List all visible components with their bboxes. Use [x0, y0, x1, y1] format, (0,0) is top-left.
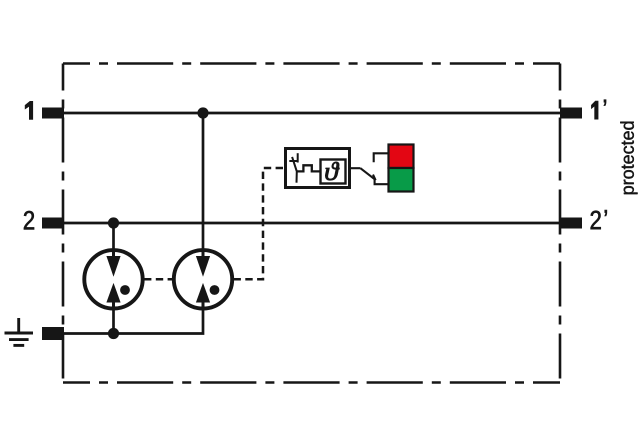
earth wire: [63, 308, 203, 334]
label protected: [620, 122, 637, 195]
thermal disconnect box: [286, 149, 350, 188]
disconnect fixed contact stub: [297, 153, 299, 162]
green status indicator: [389, 168, 414, 192]
dashed link GDT F1 to GDT F2: [144, 278, 173, 281]
enclosure dash-dot border right: [559, 64, 562, 383]
terminal 2: [42, 218, 64, 229]
thermal element box: [321, 160, 346, 184]
enclosure dash-dot border left: [62, 64, 65, 383]
wire: drop from node 1 to GDT F2: [202, 113, 205, 250]
changeover blade tick: [373, 175, 376, 181]
terminal 1: [42, 108, 64, 119]
thermal element theta symbol: [325, 162, 339, 180]
terminal 2': [560, 218, 582, 229]
red status indicator: [389, 145, 414, 169]
label 1': [591, 100, 606, 120]
ground symbol: [5, 318, 34, 345]
junction dot earth wire: [108, 328, 119, 339]
terminal 1': [560, 108, 582, 119]
junction dot node 1: [197, 107, 208, 118]
label 1: [25, 101, 33, 119]
enclosure dash-dot border bottom: [63, 381, 560, 384]
wire 2 to 2': [63, 222, 560, 225]
indicator contact top: [374, 153, 389, 162]
enclosure dash-dot border top: [63, 62, 560, 65]
wire: drop from node 2 to GDT F1: [112, 223, 115, 250]
label 2: [24, 211, 34, 230]
wire: GDT F1 to earth wire: [112, 307, 115, 334]
label 2': [591, 210, 607, 229]
wire 1 to 1': [63, 112, 560, 115]
earth terminal: [42, 327, 64, 340]
changeover switch blade: [360, 168, 374, 179]
dashed link GDT F2 to thermal disconnect: [234, 168, 286, 279]
disconnect switch blade: [292, 157, 297, 183]
wire from thermal box: [350, 167, 361, 169]
GDT F2 (gas discharge tube): [174, 250, 232, 309]
junction dot node 2: [108, 217, 119, 228]
indicator contact bottom: [375, 179, 389, 184]
mechanical linkage: [297, 165, 320, 171]
GDT F1 (gas discharge tube): [84, 250, 142, 309]
disconnect contact tick: [289, 160, 298, 162]
